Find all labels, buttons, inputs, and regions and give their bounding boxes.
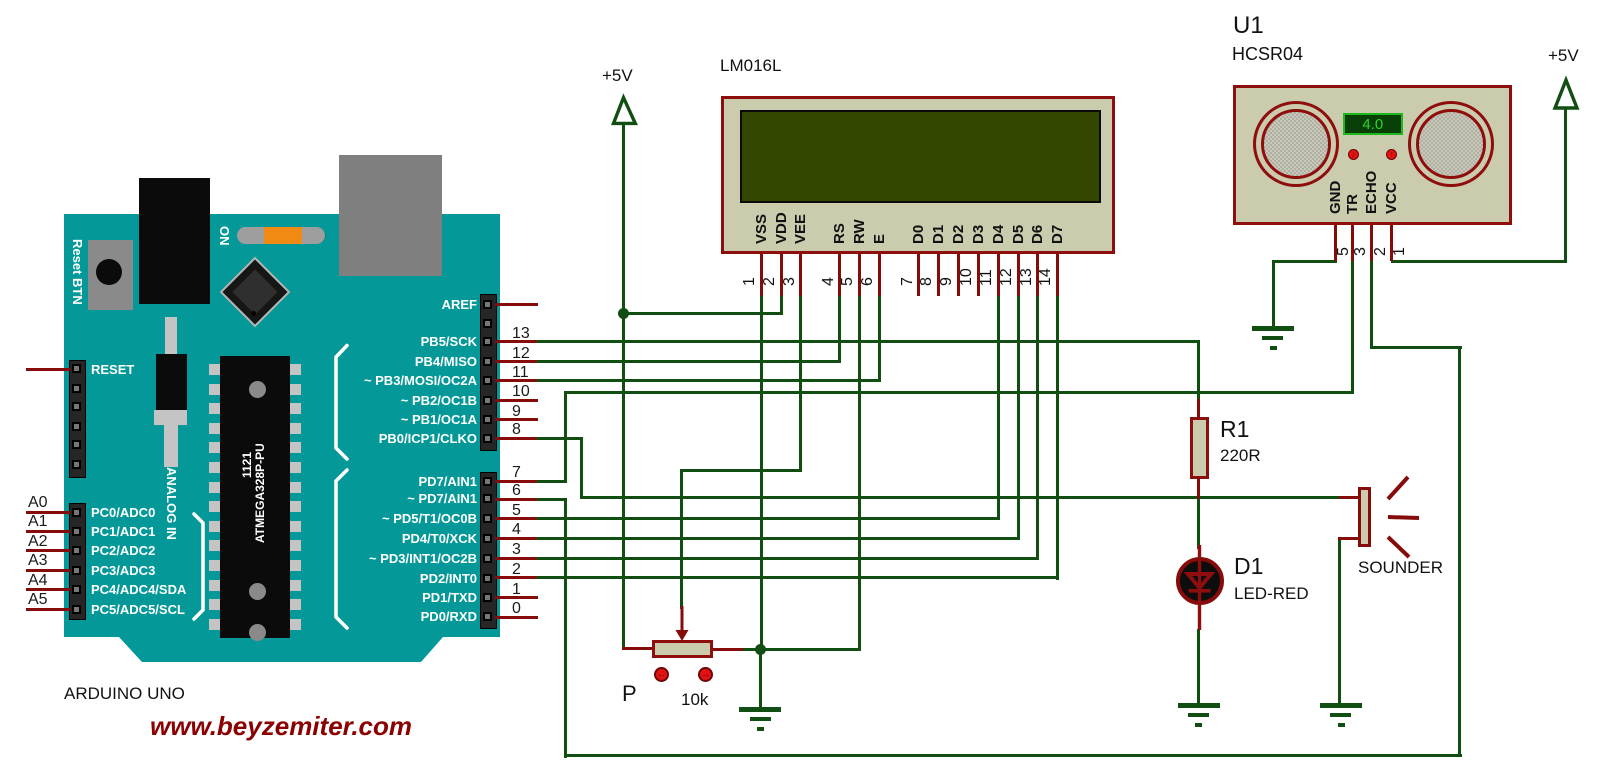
- wire pin5 to D4: [537, 517, 1000, 520]
- LCD pin 4 stub: [838, 254, 841, 296]
- LCD pin label RW: [852, 219, 867, 244]
- sensor pin label TR: [1345, 194, 1360, 214]
- node 2: [512, 562, 521, 578]
- label PC2/ADC2: [91, 544, 155, 557]
- LCD pin label D5: [1011, 225, 1026, 244]
- wire TR run: [564, 391, 1354, 394]
- LCD pin label VSS: [754, 214, 769, 244]
- smd chip diamond U3: [220, 257, 291, 328]
- wire pin8 out: [537, 437, 583, 440]
- wire LCD D4 down: [997, 296, 1000, 520]
- node 5: [512, 503, 521, 519]
- node A1: [28, 514, 48, 530]
- LCD pin 9 stub: [957, 254, 960, 296]
- header reset left: [69, 360, 86, 478]
- LCD pin label D2: [951, 225, 966, 244]
- wire LCD D6 down: [1036, 296, 1039, 560]
- wire VCC run: [1391, 260, 1567, 263]
- node 3: [512, 542, 521, 558]
- ground pot GND: [739, 707, 781, 712]
- label ~ PB1/OC1A: [277, 413, 477, 426]
- sensor pin 2 stub: [1370, 224, 1373, 261]
- LCD pin label D6: [1030, 225, 1045, 244]
- label RESET: [91, 363, 134, 376]
- wire VEE to wiper: [680, 469, 802, 472]
- label ATMEGA328P-PU: [254, 443, 266, 543]
- wire sensor gnd drop: [1272, 260, 1275, 328]
- wire pin 2 stub: [495, 576, 538, 579]
- sensor pin label GND: [1328, 181, 1343, 214]
- LCD pin 5 stub: [858, 254, 861, 296]
- LCD pin 10 stub: [977, 254, 980, 296]
- label +5V left: [602, 68, 633, 84]
- wire A0 stub: [26, 511, 70, 514]
- analog header pins: [72, 508, 81, 517]
- wire pot gnd stem: [759, 649, 762, 707]
- label PB4/MISO: [277, 355, 477, 368]
- usb connector: [339, 155, 442, 276]
- label PD4/T0/XCK: [277, 532, 477, 545]
- bracket right PB: [330, 343, 352, 463]
- wire A1 stub: [26, 530, 70, 533]
- LCD pin 7 stub: [917, 254, 920, 296]
- label PC1/ADC1: [91, 525, 155, 538]
- LCD pin 3 stub: [799, 254, 802, 296]
- LCD pin label VDD: [774, 212, 789, 244]
- pot button left: [654, 667, 669, 682]
- sensor pin number 3: [1353, 247, 1369, 256]
- label HCSR04: [1232, 44, 1303, 65]
- sensor pin 1 stub: [1390, 224, 1393, 261]
- label ON: [218, 226, 231, 246]
- LCD pin number 6: [860, 277, 876, 286]
- ground D1 GND: [1178, 703, 1220, 708]
- LCD pin 12 stub: [1017, 254, 1020, 296]
- wire pin11 to E: [537, 379, 881, 382]
- wire ECHO down: [1370, 260, 1373, 349]
- LCD pin label VEE: [793, 214, 808, 244]
- bracket right PD: [330, 468, 352, 630]
- wire reset stub: [26, 368, 70, 371]
- wire pot left feed: [622, 647, 652, 650]
- wire pin 3 stub: [495, 557, 538, 560]
- wire LCD D5 down: [1017, 296, 1020, 540]
- node A2: [28, 534, 48, 550]
- LCD pin number 12: [999, 268, 1015, 286]
- node pot/ground junction: [755, 644, 766, 655]
- wire pin6 out: [537, 498, 567, 501]
- wire LCD E down: [878, 296, 881, 382]
- LCD pin 1 stub: [760, 254, 763, 296]
- wire LCD VDD down: [780, 296, 783, 314]
- wire AREF stub: [495, 303, 538, 306]
- node A3: [28, 553, 48, 569]
- label SOUNDER: [1358, 558, 1443, 578]
- LCD pin number 9: [939, 277, 955, 286]
- wire +5V left vertical: [622, 123, 625, 649]
- sensor U1 HCSR04 body: [1233, 85, 1513, 224]
- LCD pin number 10: [959, 268, 975, 286]
- wire +5V right vertical: [1564, 107, 1567, 263]
- LCD screen: [740, 110, 1101, 203]
- node 6: [512, 483, 521, 499]
- wire sounder gnd drop: [1338, 538, 1341, 706]
- LCD pin label D0: [911, 225, 926, 244]
- label +5V right: [1548, 48, 1579, 64]
- LCD pin 14 stub: [1056, 254, 1059, 296]
- reset header pins: [72, 364, 81, 373]
- crystal Y1: [165, 317, 177, 354]
- wire pin8 drop: [580, 437, 583, 499]
- wire pin7 out: [537, 480, 567, 483]
- resistor R1: [1190, 417, 1209, 479]
- ARDUINO UNO caption: [64, 684, 185, 704]
- wire VDD branch: [622, 312, 783, 315]
- chip dot top: [249, 381, 266, 398]
- LCD pin number 14: [1038, 268, 1054, 286]
- label AREF: [277, 298, 477, 311]
- wire pin6 drop: [564, 498, 567, 758]
- sensor pin label ECHO: [1364, 171, 1379, 214]
- header digital upper right: [480, 294, 497, 451]
- LCD pin 8 stub: [937, 254, 940, 296]
- node +5V/VDD junction: [618, 308, 629, 319]
- arduino uno board outline: [0, 0, 600, 700]
- wire pin 9 stub: [495, 418, 538, 421]
- label PD0/RXD: [277, 610, 477, 623]
- node 10: [512, 384, 530, 400]
- wire pin 8 stub: [495, 437, 538, 440]
- label PC5/ADC5/SCL: [91, 603, 185, 616]
- wire pot right to RW: [742, 648, 861, 651]
- wire pin 7 stub: [495, 480, 538, 483]
- LCD pin number 3: [782, 277, 798, 286]
- node 9: [512, 404, 521, 420]
- power +5V left: [604, 62, 650, 128]
- wire bottom run: [564, 754, 1462, 757]
- upper digital header pins: [483, 300, 492, 309]
- wire LCD RW down: [858, 296, 861, 651]
- node A0: [28, 495, 48, 511]
- label PD7/AIN1: [277, 475, 477, 488]
- LCD pin number 8: [919, 277, 935, 286]
- label ~ PB3/MOSI/OC2A: [277, 374, 477, 387]
- label PC4/ADC4/SDA: [91, 583, 186, 596]
- label Reset BTN: [71, 239, 84, 305]
- wire pin3 to D6: [537, 557, 1039, 560]
- LCD pin label E: [872, 234, 887, 244]
- label ANALOG IN: [165, 467, 178, 540]
- node 1: [512, 582, 521, 598]
- node 0: [512, 601, 521, 617]
- LCD pin 11 stub: [997, 254, 1000, 296]
- wire A2 stub: [26, 549, 70, 552]
- wire LCD VSS down: [760, 296, 763, 651]
- wire LCD D7 down: [1056, 296, 1059, 580]
- sounder top pin: [1339, 496, 1358, 499]
- sensor pin 3 stub: [1351, 224, 1354, 261]
- watermark www.beyzemiter.com: [150, 711, 412, 742]
- wire pin 4 stub: [495, 537, 538, 540]
- label R1: [1220, 416, 1249, 443]
- wire LCD RS down: [838, 296, 841, 363]
- sensor display: [1343, 113, 1403, 135]
- wire pin 0 stub: [495, 616, 538, 619]
- LCD pin label D4: [991, 225, 1006, 244]
- wire pin 12 stub: [495, 360, 538, 363]
- wire LCD VEE down: [799, 296, 802, 472]
- LCD pin label RS: [832, 223, 847, 244]
- sounder LS1 body: [1358, 487, 1371, 547]
- LCD pin number 1: [742, 277, 758, 286]
- R1 bottom pin: [1197, 478, 1200, 499]
- label ~ PD5/T1/OC0B: [277, 512, 477, 525]
- sounder bottom pin: [1338, 537, 1358, 540]
- LCD pin number 2: [762, 277, 778, 286]
- label PD2/INT0: [277, 572, 477, 585]
- sensor pin label VCC: [1384, 182, 1399, 214]
- LCD pin label D1: [931, 225, 946, 244]
- LCD pin 13 stub: [1036, 254, 1039, 296]
- node 13: [512, 326, 530, 342]
- label LED-RED: [1234, 584, 1309, 604]
- label 220R: [1220, 446, 1261, 466]
- chip ATMEGA328P-PU body: [220, 356, 290, 638]
- LCD LM016L body: [721, 96, 1115, 255]
- wire pin13 to R1: [537, 340, 1200, 343]
- sensor pin number 1: [1392, 247, 1408, 256]
- label P: [622, 681, 637, 707]
- wire pin 1 stub: [495, 596, 538, 599]
- wire pin4 to D5: [537, 537, 1020, 540]
- LCD pin number 13: [1019, 268, 1035, 286]
- LCD pin 6 stub: [878, 254, 881, 296]
- potentiometer P body: [652, 640, 713, 658]
- reset button: [88, 240, 133, 310]
- wire D1 gnd drop: [1197, 629, 1200, 706]
- node A4: [28, 573, 48, 589]
- lower digital header pins: [483, 477, 492, 486]
- ground sounder GND: [1320, 703, 1362, 708]
- power +5V right: [1546, 46, 1592, 112]
- label PD1/TXD: [277, 591, 477, 604]
- wire pin12 to RS: [537, 360, 841, 363]
- ground sensor GND: [1252, 326, 1294, 331]
- wire pin 13 stub: [495, 340, 538, 343]
- label ~ PB2/OC1B: [277, 394, 477, 407]
- LCD pin label D3: [971, 225, 986, 244]
- sensor button up: [1386, 149, 1397, 160]
- LCD pin number 5: [840, 277, 856, 286]
- label ~ PD3/INT1/OC2B: [277, 552, 477, 565]
- wire R1 top feed: [1197, 340, 1200, 401]
- wire TR down: [1351, 260, 1354, 394]
- power LED pill: [237, 227, 325, 244]
- mounting hole: [312, 229, 326, 243]
- wire echo top run: [1372, 346, 1462, 349]
- sensor pin 5 stub: [1334, 224, 1337, 261]
- label PB5/SCK: [277, 335, 477, 348]
- wire node line to sounder: [580, 496, 1340, 499]
- wire A3 stub: [26, 569, 70, 572]
- pot wiper arrow: [673, 606, 691, 642]
- wire pin 5 stub: [495, 517, 538, 520]
- LCD pin number 4: [821, 277, 837, 286]
- sensor pin number 2: [1373, 247, 1389, 256]
- node 4: [512, 522, 521, 538]
- wire pin 6 stub: [495, 498, 538, 501]
- wire pin2 to D7: [537, 576, 1059, 579]
- sensor button down: [1348, 149, 1359, 160]
- op-amp U1 label: [1233, 12, 1264, 40]
- wire sensor gnd run: [1272, 260, 1337, 263]
- sounder sound waves: [1384, 472, 1429, 562]
- sensor pin number 5: [1336, 247, 1352, 256]
- node A5: [28, 592, 48, 608]
- LCD pin label D7: [1050, 225, 1065, 244]
- label ~ PD7/AIN1: [277, 492, 477, 505]
- label PB0/ICP1/CLKO: [277, 432, 477, 445]
- wire pin7 riser: [564, 391, 567, 483]
- LCD pin number 11: [979, 269, 995, 286]
- node 8: [512, 422, 521, 438]
- node 12: [512, 346, 530, 362]
- node 11: [512, 365, 529, 381]
- LCD pin number 7: [900, 277, 916, 286]
- power jack: [139, 178, 210, 304]
- wire pin 10 stub: [495, 399, 538, 402]
- wire echo right riser: [1458, 346, 1461, 757]
- wire A4 stub: [26, 588, 70, 591]
- wire pin 11 stub: [495, 379, 538, 382]
- sensor right transducer: [1408, 101, 1494, 187]
- LCD pin 2 stub: [780, 254, 783, 296]
- atmega328 dip chip pins: [209, 364, 221, 375]
- wire A5 stub: [26, 608, 70, 611]
- pot button right: [698, 667, 713, 682]
- bracket left PC: [188, 512, 210, 622]
- label PC3/ADC3: [91, 564, 155, 577]
- pot right pin: [712, 648, 743, 651]
- header analog left: [69, 503, 86, 620]
- label 10k: [681, 690, 708, 710]
- header digital lower right: [480, 472, 497, 629]
- LCD LM016L label: [720, 56, 781, 76]
- diode D1 LED-RED: [1176, 557, 1224, 605]
- node 7: [512, 465, 521, 481]
- R1 top pin: [1197, 399, 1200, 418]
- wire R1 to D1: [1197, 496, 1200, 549]
- label D1: [1234, 553, 1263, 580]
- label 1121: [241, 452, 253, 478]
- sensor left transducer: [1253, 101, 1339, 187]
- label PC0/ADC0: [91, 506, 155, 519]
- wire wiper drop: [680, 469, 683, 609]
